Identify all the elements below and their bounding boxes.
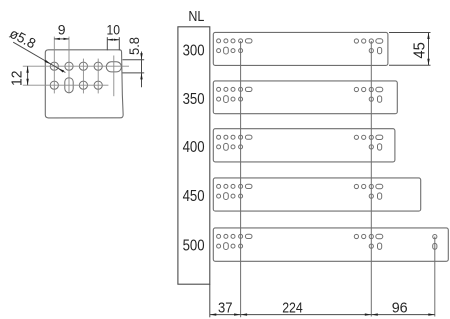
detail view: bracket plate outline (45, 50, 123, 118)
NL length column box (178, 27, 210, 284)
rail NL300 left hole cluster (217, 39, 252, 54)
rail NL500 left hole cluster (217, 234, 252, 249)
rail bar NL400 (213, 129, 395, 162)
svg-text:350: 350 (183, 91, 205, 108)
svg-text:9: 9 (58, 22, 66, 38)
rail bar NL350 (213, 81, 397, 114)
svg-text:400: 400 (183, 139, 205, 156)
svg-text:300: 300 (183, 43, 205, 60)
detail view: top row holes (4 circles + slot) (50, 62, 121, 72)
svg-text:45: 45 (411, 42, 428, 59)
rail NL400 right hole cluster (354, 135, 383, 150)
rail NL500 rear hole pair (433, 235, 437, 250)
svg-text:10: 10 (107, 22, 121, 38)
reference line rear holes (370, 41, 372, 317)
rail NL450 right hole cluster (354, 184, 383, 199)
reference line front holes (240, 41, 242, 317)
rail bar NL450 (213, 178, 420, 211)
detail view: bottom row holes (circle, vertical slot, 2 circles) (50, 78, 102, 93)
dimension 96 arrows (371, 313, 435, 315)
svg-text:12: 12 (9, 70, 26, 86)
svg-text:500: 500 (183, 238, 205, 255)
rail NL450 left hole cluster (217, 184, 252, 199)
svg-text:450: 450 (183, 188, 205, 205)
dimension 224 arrows (241, 313, 372, 315)
dimension 37 arrows (210, 313, 241, 315)
rail NL300 right hole cluster (354, 39, 383, 54)
svg-text:37: 37 (218, 299, 233, 316)
rail NL350 left hole cluster (217, 87, 252, 102)
rail NL500 right hole cluster (354, 234, 383, 249)
extension line NL500 rear hole (434, 237, 436, 317)
dimension 9 (hole pitch) (54, 38, 69, 40)
rail NL400 left hole cluster (217, 135, 252, 150)
rail bar NL300 (213, 32, 388, 65)
svg-text:5.8: 5.8 (126, 37, 142, 55)
dimension 10 (slot length) (107, 37, 119, 50)
svg-text:224: 224 (282, 299, 303, 316)
bottom dimension line (210, 314, 435, 316)
svg-text:NL: NL (188, 8, 204, 25)
rail bar NL500 (213, 228, 448, 261)
dimension 45 (rail height) (389, 33, 431, 66)
extension line from NL column box right edge (209, 284, 211, 317)
svg-text:96: 96 (392, 299, 408, 316)
dimension 12 (row pitch, left side) (27, 66, 29, 85)
dimension 5.8 (slot height, right side) (123, 52, 145, 88)
rail NL350 right hole cluster (354, 87, 383, 102)
detail view: center lines (23, 37, 129, 97)
leader ø5.8 (hole diameter callout) (13, 42, 65, 72)
